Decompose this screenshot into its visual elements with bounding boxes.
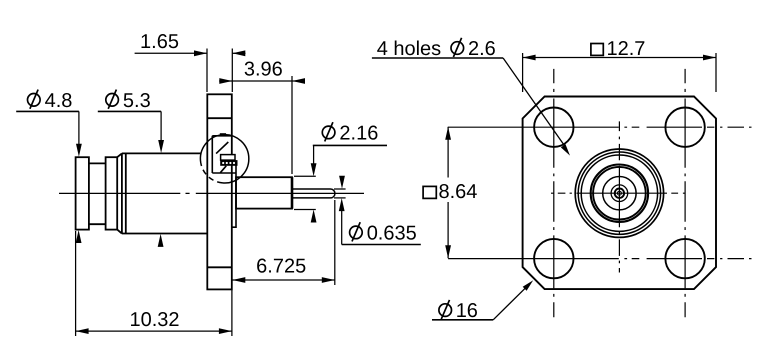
dia symbol 16 [439,300,452,319]
dimension 1.65 (flange thickness) [135,49,246,93]
dielectric cylinder (dia 2.16) [236,177,292,208]
centerline (side view axis) [59,192,364,194]
dimension 3.96 (flange face to dielectric end) [219,76,305,174]
svg-text:8.64: 8.64 [439,181,478,203]
svg-text:2.6: 2.6 [468,38,496,60]
hatch line upper [216,142,228,154]
mounting hole bottom-left [534,239,573,278]
center pin (dia 0.635) [292,189,335,198]
dia symbol 2.6 [451,38,464,57]
hole centerline vertical right [684,69,686,317]
dia symbol 4.8 [28,90,41,109]
gasket retaining tick [220,133,226,136]
flange corner chamfer line top [207,117,232,119]
hole centerline horizontal top [448,126,751,128]
gasket detail circle [200,135,248,183]
mounting hole top-left [534,108,573,147]
dia symbol 2.16 [322,122,335,141]
main centerline horizontal [551,192,685,194]
mounting hole top-right [665,108,704,147]
cap (rear nut, dia 4.8) [76,157,89,229]
label dia 0.635 [334,176,421,245]
svg-text:1.65: 1.65 [140,31,179,53]
svg-text:10.32: 10.32 [129,309,179,331]
hole centerline horizontal bottom [448,258,751,260]
dia symbol 0.635 [350,222,363,241]
square flange outline (front view) [523,97,716,290]
svg-text:6.725: 6.725 [256,255,306,277]
square symbol 8.64 [423,186,436,198]
gasket (elastomer, stippled) [220,160,237,166]
svg-text:3.96: 3.96 [244,58,283,80]
hatch line lower [220,166,226,173]
label dia 2.16 [294,145,387,222]
gasket groove section detail [212,136,235,173]
taper ring to body [117,153,126,233]
dimension box 12.7 (square width) [523,53,716,92]
flange (side view plate) [207,94,232,289]
dimension 6.725 (flange face to pin tip) [232,200,334,285]
mounting hole bottom-right [665,239,704,278]
square symbol 12.7 [591,44,603,56]
label dia 4.8 [16,111,82,243]
svg-text:16: 16 [456,300,478,322]
dimension box 8.64 (hole spacing) [445,127,451,258]
svg-text:12.7: 12.7 [607,38,646,60]
connector interface circles [575,149,663,237]
dimension 10.32 (overall body length) [76,231,232,336]
main body (dia 5.3) [122,153,207,233]
gasket groove [221,155,235,161]
hole centerline vertical left [553,69,555,317]
svg-text:5.3: 5.3 [123,90,151,112]
flange corner chamfer line bottom [207,266,232,268]
connector body outline (side view) [76,153,208,233]
svg-text:4 holes: 4 holes [377,38,442,60]
main centerline vertical [618,121,620,272]
dia symbol 5.3 [106,90,119,109]
label dia 5.3 [98,111,164,247]
groove between cap and ring [89,163,106,224]
ring (dia 4.8) [106,157,118,229]
raised face boss on flange front [232,163,236,227]
svg-text:2.16: 2.16 [339,122,378,144]
svg-text:4.8: 4.8 [45,90,73,112]
svg-text:0.635: 0.635 [367,222,417,244]
